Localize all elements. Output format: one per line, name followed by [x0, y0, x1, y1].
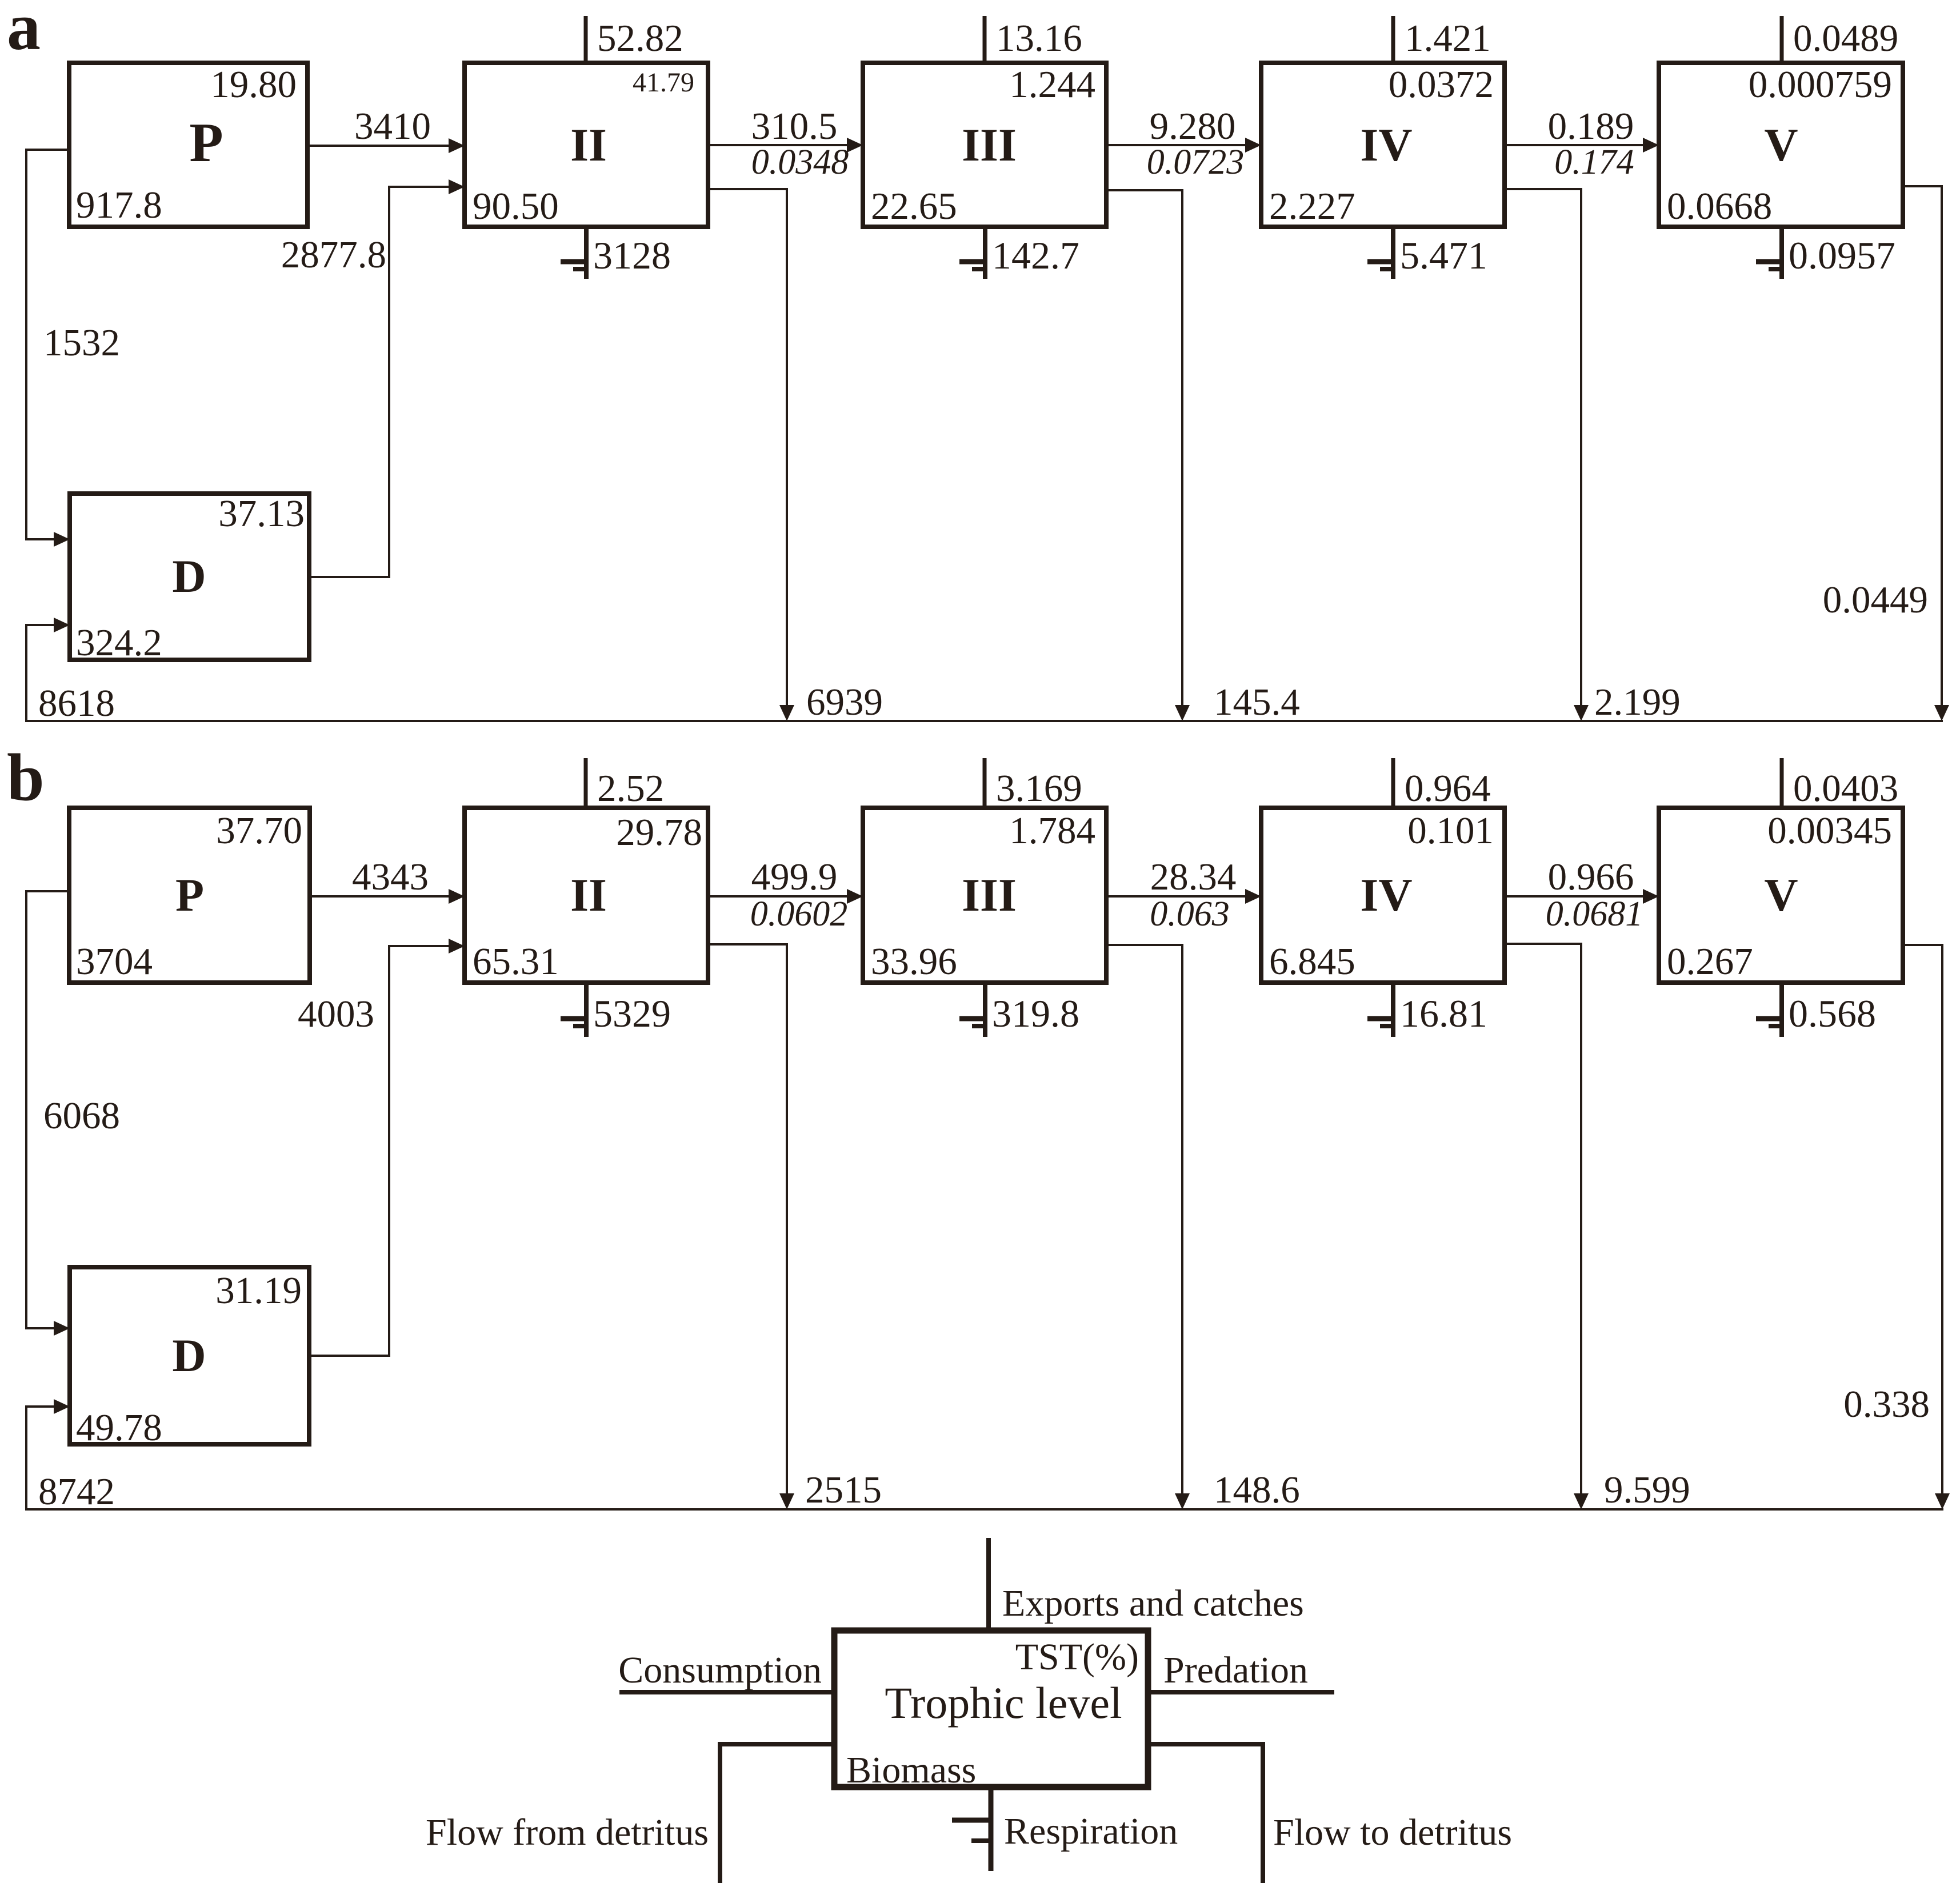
flow V to detritus (panel a) — [1903, 186, 1942, 714]
svg-text:IV: IV — [1360, 869, 1412, 921]
respiration stub II a — [584, 227, 589, 279]
svg-text:0.966: 0.966 — [1548, 856, 1634, 898]
export stub V a — [1780, 16, 1784, 63]
box IV (panel a) — [1261, 63, 1505, 227]
respiration tick long V a — [1756, 259, 1784, 265]
legend respiration tick long — [952, 1818, 993, 1823]
respiration tick short III b — [972, 1024, 987, 1028]
svg-text:Respiration: Respiration — [1004, 1810, 1178, 1852]
svg-text:TST(%): TST(%) — [1015, 1636, 1139, 1678]
detritus return line (panel a) — [26, 625, 1943, 721]
respiration stub V a — [1779, 227, 1784, 279]
svg-text:Flow from detritus: Flow from detritus — [426, 1812, 709, 1853]
svg-text:1.784: 1.784 — [1009, 810, 1095, 852]
respiration stub III a — [983, 227, 987, 279]
svg-text:6939: 6939 — [806, 681, 883, 723]
svg-text:3.169: 3.169 — [996, 767, 1082, 810]
svg-text:9.599: 9.599 — [1604, 1469, 1690, 1511]
flow V to detritus (panel b) — [1903, 945, 1942, 1503]
svg-text:499.9: 499.9 — [751, 856, 838, 898]
flow D to II (panel b) — [309, 946, 457, 1356]
svg-text:0.267: 0.267 — [1667, 940, 1753, 983]
flow II to III (panel b) — [708, 895, 855, 898]
svg-text:37.70: 37.70 — [216, 810, 302, 852]
box V (panel b) — [1659, 808, 1903, 983]
legend respiration tick short — [971, 1838, 993, 1843]
legend flow-from-detritus line — [720, 1744, 834, 1883]
box II (panel b) — [465, 808, 708, 983]
svg-text:V: V — [1764, 119, 1798, 171]
svg-text:0.0403: 0.0403 — [1793, 767, 1898, 810]
svg-text:IV: IV — [1360, 119, 1412, 171]
svg-text:Exports and catches: Exports and catches — [1002, 1582, 1304, 1624]
flow III to IV (panel a) — [1106, 144, 1254, 146]
svg-text:29.78: 29.78 — [616, 811, 702, 854]
svg-text:310.5: 310.5 — [751, 105, 838, 147]
legend respiration stub — [989, 1787, 994, 1871]
svg-text:III: III — [962, 869, 1017, 921]
svg-text:8742: 8742 — [38, 1471, 115, 1513]
svg-text:31.19: 31.19 — [215, 1269, 302, 1312]
svg-text:0.0449: 0.0449 — [1823, 579, 1928, 621]
flow III to detritus (panel b) — [1106, 945, 1182, 1503]
box P (panel b) — [69, 808, 310, 983]
respiration tick short V b — [1769, 1024, 1784, 1028]
respiration tick short V a — [1769, 267, 1784, 271]
legend exports stub — [986, 1538, 991, 1630]
svg-text:145.4: 145.4 — [1214, 681, 1300, 723]
svg-text:2877.8: 2877.8 — [281, 234, 386, 276]
legend consumption line — [619, 1690, 834, 1694]
export stub III a — [983, 16, 987, 63]
svg-text:6.845: 6.845 — [1269, 940, 1355, 983]
svg-text:0.0602: 0.0602 — [750, 895, 848, 934]
svg-text:Trophic level: Trophic level — [885, 1678, 1122, 1728]
svg-text:2.52: 2.52 — [597, 767, 664, 810]
svg-text:0.0348: 0.0348 — [751, 143, 849, 182]
svg-text:917.8: 917.8 — [76, 184, 162, 226]
svg-text:3704: 3704 — [76, 940, 153, 983]
svg-text:0.189: 0.189 — [1548, 105, 1634, 147]
svg-text:16.81: 16.81 — [1400, 992, 1487, 1035]
svg-text:b: b — [7, 740, 45, 815]
svg-text:0.00345: 0.00345 — [1767, 810, 1892, 852]
svg-text:0.174: 0.174 — [1554, 143, 1634, 182]
svg-text:P: P — [189, 112, 223, 173]
svg-text:33.96: 33.96 — [871, 940, 957, 983]
svg-text:2515: 2515 — [805, 1469, 882, 1511]
svg-text:3128: 3128 — [593, 234, 671, 277]
export stub V b — [1780, 758, 1784, 808]
svg-text:II: II — [570, 119, 607, 171]
export stub IV b — [1391, 758, 1395, 808]
export stub II a — [584, 16, 588, 63]
flow IV to detritus (panel a) — [1505, 189, 1581, 714]
svg-text:4343: 4343 — [352, 856, 429, 898]
svg-text:Biomass: Biomass — [846, 1749, 976, 1791]
flow IV to V (panel b) — [1505, 895, 1651, 898]
respiration tick long II b — [561, 1016, 589, 1021]
svg-text:19.80: 19.80 — [210, 63, 297, 106]
svg-text:0.101: 0.101 — [1407, 810, 1494, 852]
box D (panel b) — [70, 1267, 309, 1444]
svg-text:65.31: 65.31 — [473, 940, 559, 983]
svg-text:0.964: 0.964 — [1405, 767, 1491, 810]
export stub II b — [584, 758, 588, 808]
svg-text:3410: 3410 — [354, 105, 431, 147]
svg-text:0.0489: 0.0489 — [1793, 17, 1898, 59]
svg-text:9.280: 9.280 — [1150, 105, 1236, 147]
respiration tick short III a — [972, 267, 987, 271]
svg-text:1.421: 1.421 — [1405, 17, 1491, 59]
svg-text:Predation: Predation — [1163, 1649, 1308, 1691]
flow P to II (panel a) — [307, 145, 457, 147]
svg-text:2.227: 2.227 — [1269, 185, 1355, 227]
respiration tick short IV a — [1380, 267, 1395, 271]
respiration tick short IV b — [1380, 1024, 1395, 1028]
svg-text:III: III — [962, 119, 1017, 171]
svg-text:4003: 4003 — [298, 993, 374, 1035]
flow P to II (panel b) — [307, 895, 457, 898]
respiration tick long V b — [1756, 1016, 1784, 1021]
flow P to D (panel b) — [26, 891, 69, 1328]
flow IV to detritus (panel b) — [1505, 944, 1581, 1503]
svg-text:41.79: 41.79 — [633, 67, 694, 98]
legend predation line — [1148, 1690, 1334, 1694]
box III (panel b) — [863, 808, 1106, 983]
svg-text:5.471: 5.471 — [1400, 234, 1487, 277]
flow III to IV (panel b) — [1106, 895, 1254, 898]
svg-text:148.6: 148.6 — [1214, 1469, 1300, 1511]
svg-text:0.0372: 0.0372 — [1389, 63, 1494, 106]
respiration tick long IV a — [1367, 259, 1395, 265]
flow P to D (panel a) — [26, 150, 69, 539]
svg-text:28.34: 28.34 — [1150, 856, 1237, 898]
svg-text:8618: 8618 — [38, 682, 115, 724]
legend flow-to-detritus line — [1148, 1744, 1263, 1883]
box D (panel a) — [70, 494, 309, 660]
svg-text:5329: 5329 — [593, 992, 671, 1035]
respiration stub V b — [1779, 983, 1784, 1037]
svg-text:V: V — [1764, 869, 1798, 921]
svg-text:1532: 1532 — [43, 322, 120, 364]
respiration stub IV b — [1391, 983, 1395, 1037]
box P (panel a) — [69, 63, 307, 227]
svg-text:319.8: 319.8 — [992, 992, 1079, 1035]
svg-text:II: II — [570, 869, 607, 921]
svg-text:D: D — [172, 550, 206, 602]
svg-text:0.0957: 0.0957 — [1789, 234, 1895, 277]
respiration stub II b — [584, 983, 589, 1037]
respiration tick short II b — [573, 1024, 589, 1028]
respiration tick long II a — [561, 259, 589, 265]
svg-text:90.50: 90.50 — [473, 185, 559, 227]
flow D to II (panel a) — [309, 187, 457, 577]
respiration stub IV a — [1391, 227, 1395, 279]
legend box Trophic level — [834, 1630, 1148, 1787]
svg-text:49.78: 49.78 — [76, 1407, 162, 1449]
svg-text:0.338: 0.338 — [1843, 1383, 1930, 1425]
svg-text:0.000759: 0.000759 — [1749, 63, 1892, 106]
respiration tick long III a — [959, 259, 987, 265]
flow III to detritus (panel a) — [1106, 190, 1182, 714]
respiration tick long IV b — [1367, 1016, 1395, 1021]
box II (panel a) — [465, 63, 708, 227]
flow II to detritus (panel a) — [708, 189, 787, 714]
export stub IV a — [1391, 16, 1395, 63]
svg-text:2.199: 2.199 — [1594, 681, 1681, 723]
detritus return line (panel b) — [26, 1407, 1943, 1509]
svg-text:a: a — [7, 0, 41, 64]
box V (panel a) — [1659, 63, 1903, 227]
respiration stub III b — [983, 983, 987, 1037]
respiration tick short II a — [573, 267, 589, 271]
svg-text:1.244: 1.244 — [1009, 63, 1095, 106]
svg-text:0.0668: 0.0668 — [1667, 185, 1772, 227]
svg-text:0.0723: 0.0723 — [1147, 143, 1245, 182]
respiration tick long III b — [959, 1016, 987, 1021]
svg-text:0.0681: 0.0681 — [1546, 895, 1643, 934]
svg-text:Flow to detritus: Flow to detritus — [1273, 1812, 1512, 1853]
svg-text:0.063: 0.063 — [1150, 895, 1230, 934]
svg-text:37.13: 37.13 — [218, 492, 305, 535]
flow II to detritus (panel b) — [708, 944, 787, 1503]
flow IV to V (panel a) — [1505, 144, 1651, 146]
svg-text:52.82: 52.82 — [597, 17, 683, 59]
flow II to III (panel a) — [708, 144, 855, 146]
svg-text:P: P — [175, 869, 204, 921]
svg-text:142.7: 142.7 — [992, 234, 1079, 277]
export stub III b — [983, 758, 987, 808]
svg-text:D: D — [172, 1329, 206, 1381]
svg-text:0.568: 0.568 — [1789, 992, 1876, 1035]
svg-text:6068: 6068 — [43, 1095, 120, 1137]
svg-text:Consumption: Consumption — [618, 1649, 822, 1691]
box III (panel a) — [863, 63, 1106, 227]
svg-text:22.65: 22.65 — [871, 185, 957, 227]
box IV (panel b) — [1261, 808, 1505, 983]
svg-text:324.2: 324.2 — [76, 622, 162, 664]
svg-text:13.16: 13.16 — [996, 17, 1082, 59]
